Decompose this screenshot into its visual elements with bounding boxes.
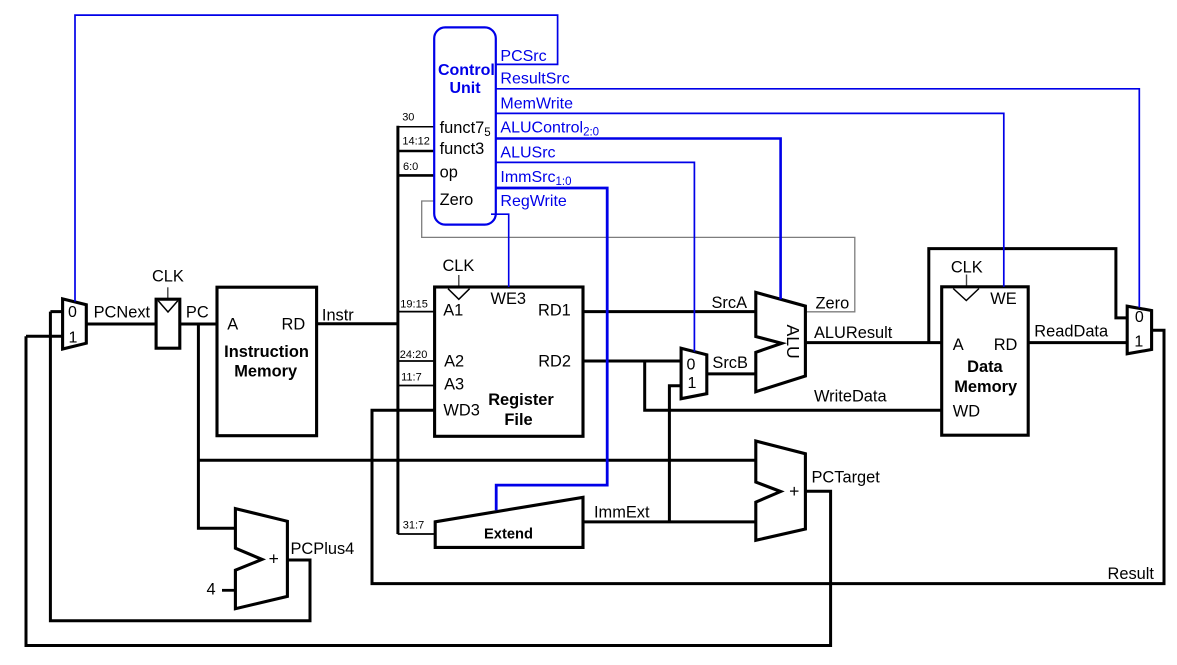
svg-text:File: File xyxy=(504,411,532,429)
svg-text:WE: WE xyxy=(990,290,1016,308)
svg-text:ImmExt: ImmExt xyxy=(594,503,650,521)
svg-text:SrcB: SrcB xyxy=(712,354,748,372)
svg-text:24:20: 24:20 xyxy=(400,349,428,361)
svg-text:op: op xyxy=(440,164,458,182)
svg-text:+: + xyxy=(269,549,279,569)
svg-text:Result: Result xyxy=(1108,565,1155,583)
svg-text:0: 0 xyxy=(68,304,77,321)
svg-text:funct3: funct3 xyxy=(440,140,485,158)
svg-text:A2: A2 xyxy=(444,353,464,371)
svg-text:Memory: Memory xyxy=(954,378,1018,396)
svg-text:RD1: RD1 xyxy=(538,302,571,320)
svg-text:CLK: CLK xyxy=(442,257,474,275)
svg-text:ReadData: ReadData xyxy=(1034,322,1109,340)
svg-text:ALU: ALU xyxy=(783,324,803,358)
svg-text:1: 1 xyxy=(1134,334,1143,351)
svg-text:ImmSrc1:0: ImmSrc1:0 xyxy=(500,169,571,188)
svg-text:CLK: CLK xyxy=(951,259,983,277)
svg-text:1: 1 xyxy=(69,330,78,347)
svg-text:6:0: 6:0 xyxy=(403,161,418,173)
svg-text:Zero: Zero xyxy=(816,294,850,312)
svg-text:19:15: 19:15 xyxy=(400,299,428,311)
svg-text:SrcA: SrcA xyxy=(712,294,748,312)
svg-text:PCNext: PCNext xyxy=(94,304,151,322)
svg-text:RD2: RD2 xyxy=(538,353,571,371)
svg-text:+: + xyxy=(789,481,799,501)
svg-text:CLK: CLK xyxy=(152,268,184,286)
svg-text:RD: RD xyxy=(994,336,1018,354)
svg-text:1: 1 xyxy=(688,375,697,392)
svg-text:0: 0 xyxy=(687,357,696,374)
svg-text:Register: Register xyxy=(488,391,554,409)
svg-text:A: A xyxy=(227,316,238,334)
svg-text:WD: WD xyxy=(953,402,980,420)
svg-text:ALUControl2:0: ALUControl2:0 xyxy=(500,120,599,139)
svg-text:4: 4 xyxy=(207,581,216,599)
svg-text:0: 0 xyxy=(1135,309,1144,326)
svg-text:WE3: WE3 xyxy=(491,290,527,308)
svg-text:Extend: Extend xyxy=(484,527,533,543)
svg-text:Control: Control xyxy=(438,62,495,79)
svg-text:ResultSrc: ResultSrc xyxy=(500,71,569,88)
svg-text:RegWrite: RegWrite xyxy=(500,193,566,210)
svg-text:ALUSrc: ALUSrc xyxy=(500,145,555,162)
svg-text:Memory: Memory xyxy=(234,363,298,381)
svg-text:MemWrite: MemWrite xyxy=(500,96,573,113)
svg-text:11:7: 11:7 xyxy=(401,371,422,383)
svg-text:ALUResult: ALUResult xyxy=(814,324,893,342)
svg-text:A3: A3 xyxy=(444,376,464,394)
svg-text:Instr: Instr xyxy=(322,306,354,324)
svg-text:PCTarget: PCTarget xyxy=(812,468,881,486)
svg-text:Zero: Zero xyxy=(440,191,474,209)
svg-text:PC: PC xyxy=(186,303,209,321)
svg-text:PCPlus4: PCPlus4 xyxy=(291,540,355,558)
svg-text:WD3: WD3 xyxy=(443,402,479,420)
svg-text:A: A xyxy=(953,336,964,354)
svg-text:Instruction: Instruction xyxy=(224,343,309,361)
svg-text:WriteData: WriteData xyxy=(814,388,887,406)
svg-text:Unit: Unit xyxy=(449,80,481,97)
svg-text:funct75: funct75 xyxy=(440,119,491,139)
svg-text:RD: RD xyxy=(282,316,306,334)
svg-text:Data: Data xyxy=(967,358,1003,376)
svg-text:31:7: 31:7 xyxy=(403,520,424,532)
svg-text:30: 30 xyxy=(402,111,414,123)
svg-text:14:12: 14:12 xyxy=(402,136,430,148)
svg-text:PCSrc: PCSrc xyxy=(500,48,546,65)
svg-text:A1: A1 xyxy=(443,302,463,320)
